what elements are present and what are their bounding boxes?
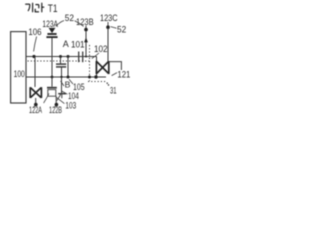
wire bottom bus [26,76,106,78]
dotted line (top) [28,60,90,62]
wire 103 bottom lead [55,96,57,104]
svg-text:123C: 123C [100,12,118,23]
leader 104 [62,91,68,94]
svg-text:101: 101 [71,39,85,49]
svg-text:104: 104 [68,91,79,101]
transistor Q1 (crossed box) [30,87,41,98]
dotted line (bottom, signal 31) [88,81,106,83]
leader 102 [92,53,99,59]
svg-text:123A: 123A [42,18,58,29]
leader 122B curve [57,92,62,101]
svg-text:52: 52 [117,25,126,35]
header text 기간 (drawn strokes) [25,3,44,12]
svg-text:T1: T1 [48,3,58,15]
wire 123B down [85,31,87,57]
capacitor C1 feed [60,57,62,64]
node dot A [67,55,70,58]
svg-text:121: 121 [117,69,130,79]
dotted vertical line (gate signal) [89,45,91,81]
terminal 123B probe dot [85,26,87,29]
node dot C feed [59,55,62,58]
terminal dot 122B [55,103,59,107]
leader 105 [69,79,73,84]
wire top bus [26,56,97,58]
svg-text:52: 52 [65,13,74,23]
leader 52 to 123B [75,21,84,27]
capacitor C1 plate top [56,63,66,65]
wire bus corner to Q2 [96,57,98,62]
leader 103 [57,98,65,104]
svg-text:31: 31 [110,85,117,95]
transistor Q2 (crossed box) [96,61,108,74]
svg-text:100: 100 [14,69,25,79]
capacitor 104 element [61,77,63,93]
wire 121 L-shape [109,62,121,70]
box 100 (substrate outline) [11,32,26,103]
svg-text:102: 102 [94,44,108,54]
svg-text:123B: 123B [76,16,94,27]
leader 52 to 123A [56,21,64,27]
leader 106 [34,37,37,52]
leader 122A short [33,106,35,108]
wire node A down [67,57,69,78]
wire 123C down [107,28,109,62]
terminal 123C probe dot [107,22,109,26]
leader 122A curve [44,94,49,104]
svg-text:106: 106 [28,27,41,37]
wire Q1 bottom lead [35,98,37,104]
current arrow on 123B wire [84,37,88,42]
node junction dot 106 [32,55,35,58]
capacitor C1 lower lead [61,68,63,78]
leader B [61,81,64,86]
wire branch to Q1 [34,57,36,88]
svg-text:122A: 122A [29,105,42,115]
wire 123A down [51,38,53,77]
terminal dot 122A [34,103,38,107]
element 103 (switch body) [51,77,53,87]
svg-text:B: B [65,80,71,90]
capacitor C1 plate bottom [56,66,66,68]
switch 101 bars [78,52,80,63]
leader 52 right [111,27,117,29]
wire Q2 bottom lead [96,74,98,77]
leader 121 [112,73,117,76]
leader 122B short [54,106,56,108]
junction 123B-bus [85,56,87,58]
junction dots bottom bus [51,76,54,79]
svg-text:A: A [63,39,69,49]
svg-text:103: 103 [65,100,76,110]
svg-text:122B: 122B [49,105,62,115]
terminal 123A symbol (arrow + plates) [46,28,57,38]
